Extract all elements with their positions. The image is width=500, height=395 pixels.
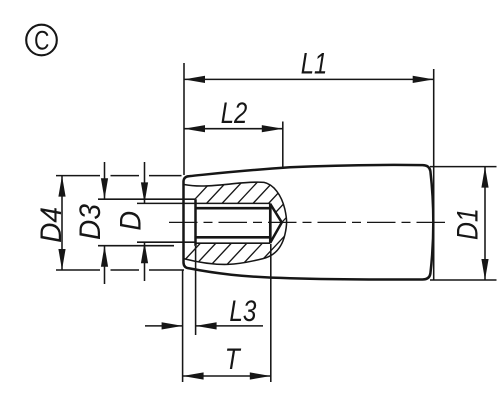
- D dimension line lower: [144, 242, 146, 281]
- D1 dimension line: [484, 167, 486, 280]
- svg-text:L3: L3: [229, 295, 256, 328]
- D extension line bottom: [137, 241, 195, 243]
- L2 extension line right: [282, 122, 284, 169]
- thread minor bore line top: [196, 207, 271, 210]
- D arrow top: [141, 182, 148, 203]
- section hatching (broken-out section around threaded hole): [127, 176, 480, 272]
- L3 extension line left: [182, 270, 184, 383]
- D1 arrow top: [481, 167, 488, 188]
- thread major diameter line top: [196, 202, 271, 204]
- T arrow right: [250, 372, 271, 379]
- D4 arrow top: [58, 176, 65, 197]
- L2 arrow left: [184, 125, 205, 132]
- centerline: [169, 221, 449, 223]
- D3 dimension line upper: [104, 162, 106, 199]
- D extension line top: [137, 202, 195, 204]
- svg-text:L1: L1: [301, 47, 328, 80]
- D arrow bottom: [141, 242, 148, 263]
- svg-text:C: C: [34, 25, 49, 55]
- svg-text:L2: L2: [221, 97, 248, 130]
- L3 arrow left: [162, 322, 183, 329]
- L1 arrow left: [184, 76, 205, 83]
- T arrow left: [183, 372, 204, 379]
- D1 extension line top: [430, 166, 497, 168]
- break line (section boundary): [184, 182, 287, 264]
- L3 dimension line: [145, 325, 183, 327]
- svg-text:D1: D1: [452, 208, 485, 240]
- L1 extension line right: [433, 69, 435, 280]
- D1 extension line bottom: [430, 279, 497, 281]
- D3 extension line top: [98, 198, 195, 200]
- L3 arrow right: [196, 322, 217, 329]
- D4 arrow bottom: [58, 249, 65, 270]
- bore end face: [269, 203, 272, 243]
- view label circle C: [26, 25, 57, 56]
- handle outline: [184, 165, 434, 280]
- L3 extension line right: [195, 246, 197, 335]
- thread minor bore line bottom: [196, 236, 271, 239]
- L1 arrow right: [413, 76, 434, 83]
- thread major diameter line bottom: [196, 242, 271, 244]
- D1 arrow bottom: [481, 259, 488, 280]
- D4 extension line bottom: [56, 269, 100, 271]
- T dimension line: [183, 375, 271, 377]
- D3 extension line bottom: [98, 245, 174, 247]
- L2 dimension line: [184, 128, 283, 130]
- L2 arrow right: [262, 125, 283, 132]
- L1 extension line left: [183, 63, 185, 175]
- thread recess left face: [194, 199, 197, 246]
- L1 dimension line: [184, 78, 434, 80]
- svg-text:D: D: [115, 211, 148, 231]
- D4 dimension line: [61, 176, 63, 270]
- svg-text:T: T: [225, 343, 242, 376]
- T extension line right: [270, 244, 272, 382]
- D3 arrow bottom: [101, 246, 108, 267]
- drill point cone: [270, 204, 282, 243]
- D4 extension line top: [56, 175, 100, 177]
- svg-text:D3: D3: [74, 204, 107, 240]
- D dimension line upper: [144, 162, 146, 203]
- svg-text:D4: D4: [35, 207, 68, 243]
- D3 dimension line lower: [104, 246, 106, 284]
- D3 arrow top: [101, 178, 108, 199]
